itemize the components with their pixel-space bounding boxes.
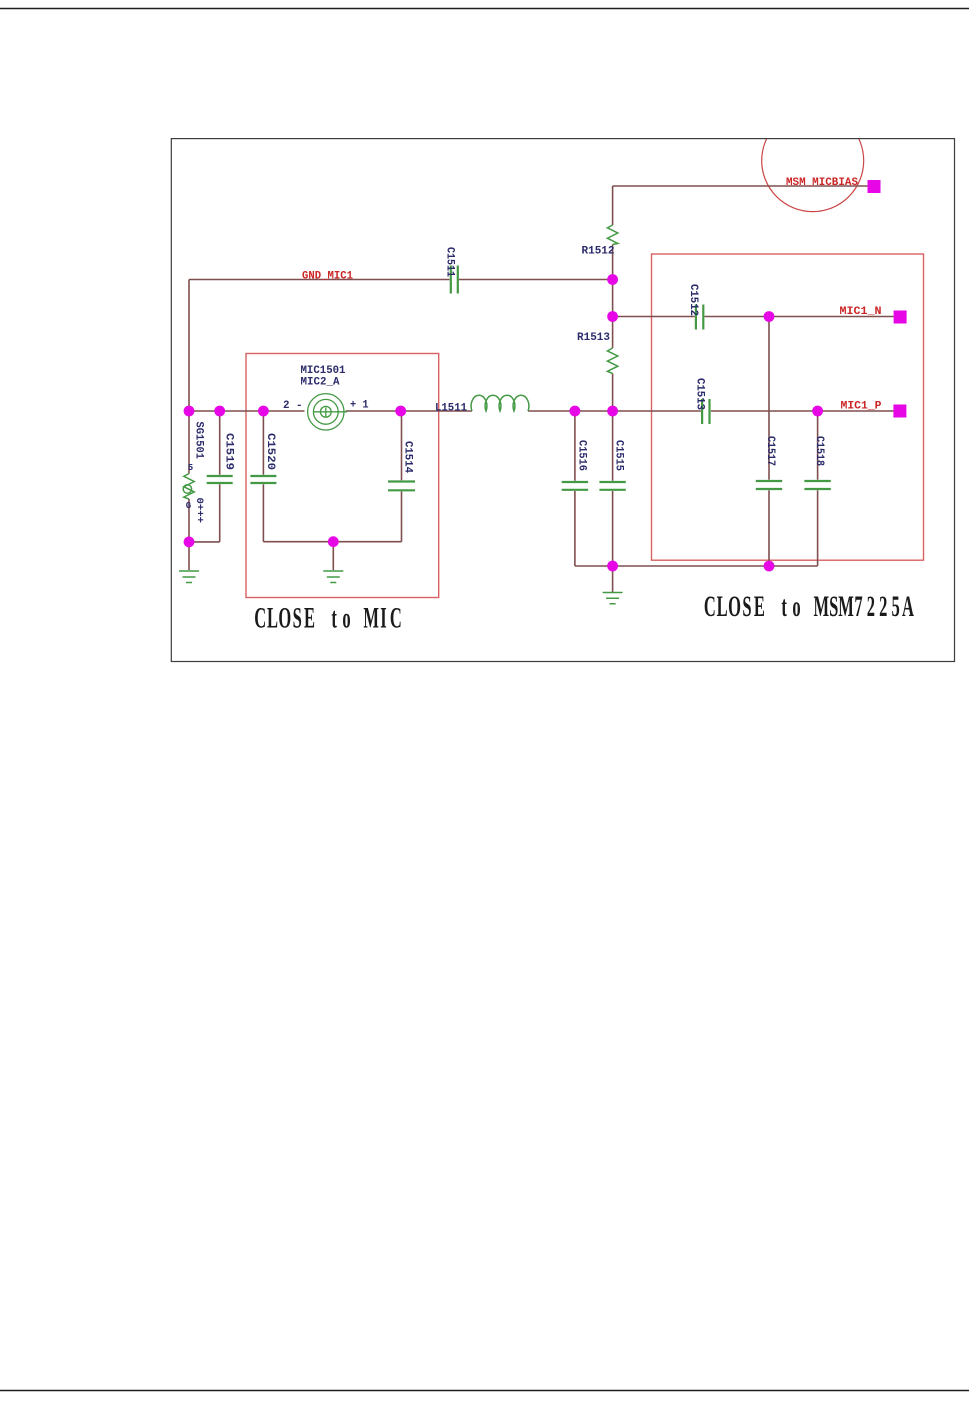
svg-text:2 -: 2 - (283, 400, 303, 412)
svg-text:MSM_MICBIAS: MSM_MICBIAS (786, 177, 858, 189)
svg-text:E: E (754, 591, 765, 623)
svg-text:C1512: C1512 (687, 284, 699, 316)
svg-text:2: 2 (879, 591, 887, 623)
svg-text:S: S (293, 603, 302, 635)
svg-text:C1514: C1514 (402, 441, 414, 473)
svg-text:C1519: C1519 (223, 433, 235, 470)
svg-text:E: E (304, 603, 315, 635)
svg-text:L: L (717, 591, 728, 623)
svg-text:M: M (814, 591, 830, 623)
svg-text:C: C (704, 591, 716, 623)
svg-text:t: t (331, 603, 337, 635)
svg-text:C1517: C1517 (764, 436, 776, 466)
svg-text:t: t (781, 591, 787, 623)
svg-text:O: O (278, 603, 291, 635)
svg-text:C1515: C1515 (613, 440, 625, 471)
svg-text:I: I (380, 603, 386, 635)
svg-text:2: 2 (867, 591, 875, 623)
svg-text:5: 5 (188, 463, 193, 473)
svg-text:C: C (254, 603, 266, 635)
svg-text:7: 7 (854, 591, 862, 623)
svg-text:MIC1_P: MIC1_P (841, 400, 882, 412)
svg-text:C1511: C1511 (444, 247, 456, 277)
svg-text:G: G (186, 501, 191, 511)
svg-text:o: o (342, 603, 350, 635)
svg-text:R1512: R1512 (582, 246, 615, 258)
svg-text:S: S (742, 591, 751, 623)
svg-text:+ 1: + 1 (350, 400, 369, 412)
svg-text:S: S (829, 591, 838, 623)
svg-text:L1511: L1511 (435, 403, 467, 415)
svg-text:MIC1_N: MIC1_N (840, 306, 882, 318)
svg-text:M: M (838, 591, 854, 623)
svg-text:C1516: C1516 (576, 440, 588, 471)
svg-text:C1520: C1520 (264, 433, 276, 470)
svg-text:L: L (267, 603, 278, 635)
svg-text:MIC1501: MIC1501 (301, 365, 346, 377)
svg-text:SG1501: SG1501 (193, 422, 205, 460)
svg-text:A: A (902, 591, 914, 623)
svg-text:0+++: 0+++ (193, 498, 204, 524)
svg-text:MIC2_A: MIC2_A (301, 377, 340, 389)
svg-text:C: C (390, 603, 402, 635)
svg-text:C1513: C1513 (694, 378, 706, 410)
svg-text:R1513: R1513 (577, 332, 610, 344)
svg-text:GND_MIC1: GND_MIC1 (302, 271, 353, 283)
svg-text:O: O (728, 591, 741, 623)
svg-text:M: M (363, 603, 379, 635)
svg-text:5: 5 (891, 591, 899, 623)
svg-text:o: o (792, 591, 800, 623)
svg-text:C1518: C1518 (813, 436, 825, 466)
